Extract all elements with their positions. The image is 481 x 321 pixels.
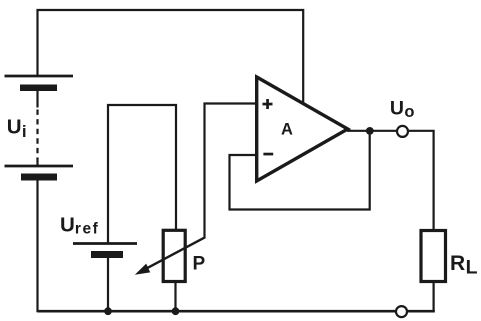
battery cell B2 lower (Ui) bbox=[5, 166, 74, 181]
terminal: Uo output bbox=[397, 126, 408, 137]
wire: Uref top loop to potentiometer top bbox=[108, 105, 176, 243]
op-amp + input marker bbox=[263, 99, 273, 109]
battery Bref (Uref) bbox=[73, 244, 137, 259]
svg-text:Uo: Uo bbox=[390, 97, 415, 121]
potentiometer wiper arrow bbox=[135, 237, 205, 274]
wire: feedback loop from - input to output node bbox=[230, 131, 370, 210]
wire: Uref negative lead to bottom rail bbox=[107, 257, 109, 312]
svg-text:Uref: Uref bbox=[60, 214, 99, 238]
wire: bottom rail bbox=[38, 310, 435, 313]
battery cell B1 upper (Ui) bbox=[5, 76, 74, 91]
wire: op-amp output to RL top bbox=[347, 131, 434, 230]
terminal: bottom output bbox=[396, 306, 407, 317]
svg-text:P: P bbox=[193, 254, 206, 275]
dashed wire: Ui cell break bbox=[36, 91, 38, 166]
potentiometer P body bbox=[163, 230, 185, 281]
op-amp A body bbox=[257, 77, 348, 181]
wire: Ui negative lead to bottom rail bbox=[36, 180, 38, 312]
op-amp - input marker bbox=[263, 153, 273, 156]
svg-text:A: A bbox=[281, 121, 293, 139]
junction: Uref at bottom rail bbox=[104, 307, 112, 315]
svg-text:RL: RL bbox=[450, 252, 478, 278]
wire: top rail from Ui positive to op-amp top bbox=[38, 10, 304, 103]
junction: potentiometer at bottom rail bbox=[172, 307, 180, 315]
wire: potentiometer bottom to rail bbox=[174, 282, 176, 312]
junction: output node bbox=[366, 127, 374, 135]
svg-text:Ui: Ui bbox=[7, 116, 27, 141]
wire: RL bottom lead bbox=[433, 282, 435, 312]
resistor RL body bbox=[421, 231, 446, 282]
wire: + input from wiper node to op-amp bbox=[205, 104, 257, 239]
